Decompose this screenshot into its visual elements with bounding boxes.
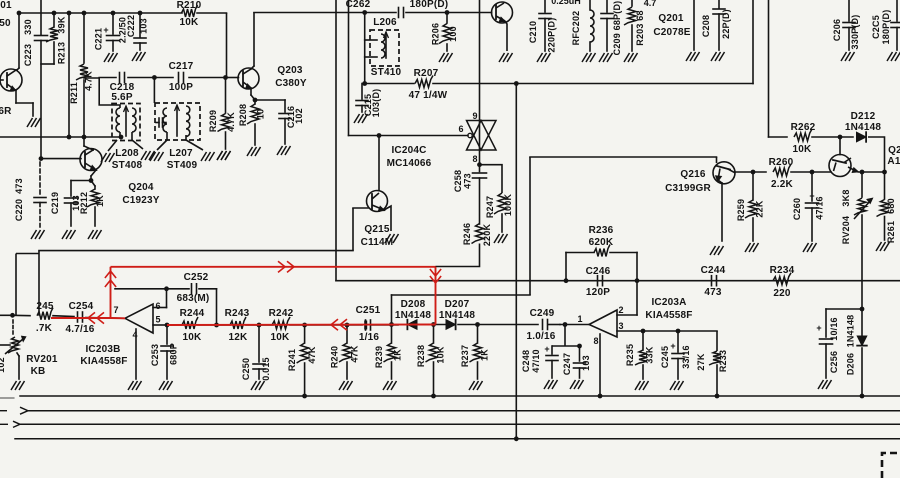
ground of Q215 emitter bbox=[385, 234, 399, 243]
svg-text:KB: KB bbox=[31, 366, 46, 377]
capacitor C247 103 bbox=[574, 346, 586, 378]
svg-text:R211: R211 bbox=[69, 82, 79, 104]
svg-text:8: 8 bbox=[593, 336, 598, 346]
ground of R247 bbox=[494, 234, 508, 243]
svg-text:680: 680 bbox=[886, 198, 896, 214]
ground of C260 bbox=[803, 243, 817, 252]
capacitor C218 5.6P bbox=[119, 73, 121, 83]
node dot x259 y325 bbox=[257, 323, 262, 328]
inductor L206 dashed box ST410 bbox=[365, 30, 399, 66]
red arrow right on C bbox=[287, 261, 294, 272]
svg-text:1K: 1K bbox=[480, 349, 490, 361]
ground of C222 bbox=[132, 52, 146, 61]
node dot x565 y324.5 bbox=[563, 322, 568, 327]
ground of C206 bbox=[841, 52, 855, 61]
svg-text:C260: C260 bbox=[792, 198, 802, 220]
node dot top rail at x19 bbox=[17, 11, 22, 16]
svg-text:C3199GR: C3199GR bbox=[665, 183, 711, 194]
svg-text:47K: 47K bbox=[307, 346, 317, 363]
wire y83.5 line with R207 bbox=[365, 83, 414, 85]
wire D212 line y137 bbox=[769, 136, 788, 138]
capacitor C210 220P(D) bbox=[539, 0, 551, 51]
transistor Q217 A12 (edge) bbox=[829, 137, 862, 177]
svg-text:KIA4558F: KIA4558F bbox=[80, 356, 127, 367]
node dot x433.5 y324.5 bbox=[431, 322, 436, 327]
svg-text:1/16: 1/16 bbox=[359, 332, 380, 343]
wire emitter line right bbox=[862, 171, 885, 173]
svg-text:01: 01 bbox=[0, 0, 12, 11]
wire C254 to opamp out bbox=[86, 317, 125, 320]
svg-text:0.015: 0.015 bbox=[261, 357, 271, 381]
svg-text:C380Y: C380Y bbox=[275, 78, 307, 89]
bus line 3 y424.3 bbox=[20, 423, 900, 425]
node dot top rail at x69 bbox=[67, 11, 72, 16]
red trace output segment A bbox=[51, 317, 111, 319]
svg-text:10K: 10K bbox=[793, 144, 813, 155]
wire audio line segment bbox=[305, 324, 347, 326]
ground right of L208 bbox=[141, 151, 155, 160]
svg-text:473: 473 bbox=[704, 287, 722, 298]
svg-text:D206: D206 bbox=[846, 353, 856, 375]
wire Q216 collector to R260 bbox=[735, 171, 766, 173]
svg-text:R234: R234 bbox=[770, 265, 795, 276]
svg-text:50: 50 bbox=[0, 18, 11, 29]
ground of R237 bbox=[469, 381, 483, 390]
wire from R210 down to Q203 base node bbox=[226, 13, 228, 78]
svg-text:C219: C219 bbox=[50, 192, 60, 214]
capacitor C209 68P(D) bbox=[601, 0, 613, 51]
resistor R213 39K vertical bbox=[41, 13, 58, 64]
wire C249 to opamp bbox=[548, 324, 560, 326]
node dot bus x717 bbox=[715, 394, 720, 399]
svg-text:C220: C220 bbox=[14, 199, 24, 221]
bus line 3 arrow bbox=[0, 423, 8, 425]
resistor R208 10 vertical bbox=[247, 100, 259, 145]
ground of C250 bbox=[251, 381, 265, 390]
wire D208 to D207 bbox=[417, 324, 446, 326]
node dot x121 y137 bbox=[119, 135, 124, 140]
resistor R261 680 bbox=[877, 172, 889, 240]
bus line 2 y410.7 bbox=[28, 410, 900, 412]
opamp IC203A KIA4558F bbox=[560, 281, 717, 337]
ground of R209 bbox=[217, 151, 231, 160]
svg-text:C247: C247 bbox=[562, 353, 572, 375]
svg-text:102: 102 bbox=[0, 357, 6, 373]
node dot Q204 base x41 bbox=[39, 156, 44, 161]
resistor R245 4.7K bbox=[37, 308, 53, 320]
resistor R203 68 vertical bbox=[624, 0, 636, 51]
svg-text:473: 473 bbox=[463, 173, 473, 189]
wire C258 to R246 bbox=[479, 178, 481, 224]
node dot x579.5 y346 bbox=[577, 344, 582, 349]
svg-text:C222: C222 bbox=[126, 15, 136, 37]
svg-text:ST409: ST409 bbox=[167, 160, 198, 171]
svg-text:10K: 10K bbox=[183, 332, 203, 343]
svg-text:1K: 1K bbox=[95, 195, 105, 207]
ground left of L207 bbox=[150, 152, 164, 161]
svg-text:473: 473 bbox=[14, 178, 24, 194]
svg-text:RFC202: RFC202 bbox=[571, 11, 581, 46]
resistor R233 27K bbox=[709, 331, 721, 396]
svg-text:22K: 22K bbox=[755, 200, 765, 217]
resistor R260 2.2K bbox=[773, 164, 791, 176]
svg-text:IC203A: IC203A bbox=[651, 297, 686, 308]
node dot x347 y325 bbox=[345, 323, 350, 328]
ground of C208 bbox=[711, 52, 725, 61]
dashed box corner bottom right bbox=[882, 453, 900, 478]
svg-text:5: 5 bbox=[155, 315, 160, 325]
svg-text:R236: R236 bbox=[589, 225, 614, 236]
capacitor C217 100P bbox=[178, 73, 180, 83]
wire riser x530 from Q216 base line bbox=[529, 157, 531, 295]
svg-text:33K: 33K bbox=[645, 346, 655, 363]
capacitor C253 680P bbox=[161, 325, 173, 379]
wire C252 right riser to audio line bbox=[216, 289, 218, 325]
svg-text:R209: R209 bbox=[208, 110, 218, 132]
resistor R211 4.7K vertical bbox=[76, 13, 88, 137]
red trace vertical D bbox=[435, 267, 437, 325]
long vertical x479.5 through IC204C bbox=[479, 0, 481, 172]
svg-text:1: 1 bbox=[577, 314, 582, 324]
capacitor C251 1/16 electrolytic bbox=[364, 320, 370, 330]
svg-text:C208: C208 bbox=[701, 15, 711, 37]
bus line 4 y438.8 bbox=[15, 438, 900, 440]
wire C251 to D208 bbox=[371, 324, 398, 326]
branch pin8 to R247 bbox=[480, 165, 503, 193]
long vertical x516.3 to bus4 bbox=[515, 84, 517, 439]
svg-text:22P(D): 22P(D) bbox=[721, 9, 731, 39]
svg-text:10: 10 bbox=[256, 109, 266, 119]
svg-text:C254: C254 bbox=[69, 301, 94, 312]
svg-text:R261: R261 bbox=[886, 221, 896, 243]
svg-text:4.7/16: 4.7/16 bbox=[65, 324, 94, 335]
node dot at 225 on y77.5 bbox=[223, 75, 228, 80]
svg-text:R235: R235 bbox=[625, 344, 635, 366]
svg-text:102: 102 bbox=[294, 108, 304, 124]
svg-text:C246: C246 bbox=[586, 266, 611, 277]
node dot at 154 on y77.5 bbox=[152, 75, 157, 80]
capacitor C256 10/16 bbox=[820, 309, 833, 378]
svg-text:680P: 680P bbox=[169, 343, 179, 365]
ground of C215 bbox=[354, 114, 368, 123]
svg-text:RV204: RV204 bbox=[841, 216, 851, 244]
svg-text:D212: D212 bbox=[851, 111, 876, 122]
red trace vertical B bbox=[110, 267, 112, 318]
red trace horizontal C bbox=[111, 266, 436, 268]
svg-text:103: 103 bbox=[581, 355, 591, 371]
svg-text:C244: C244 bbox=[701, 265, 726, 276]
capacitor C222 103 bbox=[134, 13, 146, 50]
wire L206 drop x364.7 bbox=[364, 13, 366, 84]
wire R245 to C254 bbox=[53, 315, 74, 318]
long vertical bus x348.5 bbox=[348, 0, 350, 136]
svg-text:3K8: 3K8 bbox=[841, 189, 851, 206]
wire audio line y324.5 main bbox=[0, 314, 13, 316]
svg-text:5.6P: 5.6P bbox=[111, 92, 133, 103]
wire drop x391.5 to audio line bbox=[391, 295, 393, 325]
wire y295 segment bbox=[392, 294, 531, 296]
node dot x516 y83.5 bbox=[514, 81, 519, 86]
ground of R206 bbox=[439, 53, 453, 62]
wire D207 to C249 bbox=[458, 324, 538, 326]
resistor R242 10K bbox=[259, 317, 305, 329]
svg-text:R238: R238 bbox=[416, 345, 426, 367]
ground left of L208 bbox=[101, 153, 115, 162]
ground of C220 bbox=[31, 230, 45, 239]
red arrow left on E bbox=[331, 319, 338, 330]
svg-text:Q204: Q204 bbox=[128, 182, 154, 193]
svg-text:4.7K: 4.7K bbox=[84, 71, 94, 91]
wire x694 short with ground bbox=[693, 0, 695, 50]
node dot bus x304 bbox=[302, 394, 307, 399]
node dot top rail at x54 bbox=[52, 11, 57, 16]
node dot emitter Q203 bbox=[253, 98, 258, 103]
svg-text:10K: 10K bbox=[436, 346, 446, 363]
svg-text:ST410: ST410 bbox=[371, 67, 402, 78]
ground of R209 area right bbox=[217, 151, 231, 160]
capacitor C220 dashed branch bbox=[34, 162, 46, 227]
svg-text:D207: D207 bbox=[445, 299, 470, 310]
long vertical x768.5 bbox=[768, 0, 770, 137]
svg-text:C250: C250 bbox=[241, 358, 251, 380]
wire R262 to D212 bbox=[812, 136, 853, 138]
svg-text:180P(D): 180P(D) bbox=[881, 10, 891, 45]
bus line 2 arrow bbox=[0, 410, 7, 412]
svg-text:R207: R207 bbox=[414, 68, 439, 79]
capacitor C246 120P bbox=[597, 276, 599, 286]
capacitor C260 47/16 electrolytic bbox=[806, 172, 819, 241]
resistor R237 1K bbox=[470, 325, 482, 379]
svg-text:R259: R259 bbox=[736, 199, 746, 221]
svg-text:2.2K: 2.2K bbox=[771, 179, 794, 190]
node dot pin3 x678 bbox=[676, 329, 681, 334]
svg-text:A1: A1 bbox=[887, 156, 900, 167]
resistor R206 100 vertical bbox=[439, 13, 451, 52]
node dot bus x434 bbox=[431, 394, 436, 399]
svg-text:C251: C251 bbox=[356, 305, 381, 316]
capacitor C254 4.7/16 bbox=[77, 312, 79, 322]
resistor R246 220K bbox=[472, 224, 484, 244]
ground of RFC202 bbox=[582, 53, 596, 62]
ground of C210 bbox=[537, 53, 551, 62]
node dot bus x600 bbox=[598, 394, 603, 399]
svg-text:+: + bbox=[816, 323, 821, 333]
svg-text:R247: R247 bbox=[485, 196, 495, 218]
svg-text:R208: R208 bbox=[238, 104, 248, 126]
node dot x84 y137 bbox=[82, 135, 87, 140]
svg-text:100P: 100P bbox=[169, 82, 193, 93]
svg-text:1N4148: 1N4148 bbox=[395, 310, 431, 321]
wire top-left horizontal rail y=13 bbox=[19, 12, 182, 14]
node dot x812 y172 bbox=[810, 170, 815, 175]
ground x694 bbox=[686, 52, 700, 61]
svg-text:R241: R241 bbox=[287, 349, 297, 371]
IC203A power pin to bus bbox=[599, 334, 601, 396]
svg-text:1N4148: 1N4148 bbox=[845, 122, 881, 133]
inductor RFC202 coil bbox=[590, 0, 594, 51]
svg-text:C1923Y: C1923Y bbox=[122, 195, 159, 206]
wire audio line to C251 bbox=[347, 324, 362, 326]
ground of R261 bbox=[876, 242, 890, 251]
svg-text:C249: C249 bbox=[530, 308, 555, 319]
svg-text:6R: 6R bbox=[0, 106, 12, 117]
capacitor C249 1.0/16 bbox=[542, 320, 544, 330]
wire pin6 riser bbox=[166, 289, 168, 308]
ground of C253 bbox=[159, 381, 173, 390]
transistor Q204 C1923Y bbox=[41, 137, 102, 181]
capacitor C221 2.2/50 electrolytic bbox=[107, 13, 120, 51]
svg-text:39K: 39K bbox=[57, 16, 67, 33]
transistor Q201 C2078E bbox=[492, 2, 513, 51]
node dot x364.7 y83.5 bbox=[362, 81, 367, 86]
ground of C216 bbox=[277, 146, 291, 155]
ground of R212 bbox=[88, 230, 102, 239]
red arrow up on B bbox=[105, 271, 116, 278]
svg-text:RV201: RV201 bbox=[26, 354, 58, 365]
svg-text:6: 6 bbox=[458, 124, 463, 134]
ground of R235 bbox=[635, 381, 649, 390]
red trace audio segment E bbox=[167, 324, 436, 327]
svg-text:R206: R206 bbox=[431, 23, 441, 45]
resistor R234 220 bbox=[773, 273, 791, 285]
ground of R259 bbox=[745, 243, 759, 252]
capacitor C216 102 bbox=[279, 100, 291, 144]
svg-text:8: 8 bbox=[472, 154, 477, 164]
svg-text:R243: R243 bbox=[225, 308, 250, 319]
svg-text:120P: 120P bbox=[586, 287, 610, 298]
ground of C221 bbox=[104, 53, 118, 62]
ground of Q201 emitter bbox=[499, 53, 513, 62]
diode D207 1N4148 bbox=[446, 320, 456, 330]
node dot x69 y137 bbox=[67, 135, 72, 140]
resistor R209 4.7K vertical below Q203 base node bbox=[218, 78, 230, 150]
svg-text:100: 100 bbox=[448, 26, 458, 42]
diode D206 1N4148 vertical bbox=[857, 309, 867, 396]
svg-text:R233: R233 bbox=[718, 350, 728, 372]
svg-text:R244: R244 bbox=[180, 308, 205, 319]
svg-text:C223: C223 bbox=[23, 44, 33, 66]
ground of C245 bbox=[670, 381, 684, 390]
node dot x753 y172 bbox=[751, 170, 756, 175]
ground of R240 bbox=[339, 381, 353, 390]
svg-text:Q216: Q216 bbox=[680, 169, 706, 180]
node dot x391.5 y324.5 bbox=[389, 322, 394, 327]
svg-text:12K: 12K bbox=[229, 332, 249, 343]
capacitor C258 473 bbox=[473, 172, 487, 174]
resistor R244 10K bbox=[167, 317, 217, 329]
node dot Q204 emitter bbox=[89, 178, 94, 183]
resistor R239 1K bbox=[384, 325, 396, 379]
svg-text:330P(D): 330P(D) bbox=[850, 15, 860, 50]
ground of C256 bbox=[818, 380, 832, 389]
node dot x884.5 y172 bbox=[882, 170, 887, 175]
svg-text:C209 68P(D): C209 68P(D) bbox=[612, 1, 622, 56]
ground of R203 bbox=[624, 53, 638, 62]
ground of RV201 bbox=[11, 381, 25, 390]
svg-text:C2C5: C2C5 bbox=[871, 15, 881, 39]
svg-text:IC204C: IC204C bbox=[391, 145, 426, 156]
resistor R243 12K bbox=[217, 317, 260, 329]
svg-text:ST408: ST408 bbox=[112, 160, 143, 171]
node dot x12.5 bbox=[10, 313, 15, 318]
svg-text:47/16: 47/16 bbox=[815, 196, 825, 220]
node dot top rail at x140 bbox=[138, 11, 143, 16]
svg-text:C206: C206 bbox=[832, 19, 842, 41]
svg-text:C248: C248 bbox=[521, 350, 531, 372]
Q203 emitter node wire bbox=[255, 99, 285, 101]
svg-text:27K: 27K bbox=[696, 353, 706, 370]
wire C262 to Q201 base bbox=[406, 12, 492, 14]
ground of Q216 emitter bbox=[710, 246, 724, 255]
svg-text:1N4148: 1N4148 bbox=[439, 310, 475, 321]
svg-text:9: 9 bbox=[472, 111, 477, 121]
node dot x862 y172 bbox=[860, 170, 865, 175]
wire y137 left line bbox=[0, 136, 119, 138]
capacitor C206 330P(D) bbox=[843, 0, 855, 50]
svg-text:Q2: Q2 bbox=[888, 145, 900, 156]
ground right of L207 bbox=[201, 152, 215, 161]
svg-text:L206: L206 bbox=[373, 17, 397, 28]
node dot x365 y12.5 bbox=[362, 10, 367, 15]
node dot x166.5 y288.8 bbox=[164, 286, 169, 291]
svg-text:L207: L207 bbox=[169, 148, 193, 159]
svg-text:683(M): 683(M) bbox=[177, 293, 210, 304]
svg-text:.7K: .7K bbox=[36, 323, 53, 334]
wire vertical x69 from rail to y137 bbox=[68, 13, 70, 137]
wire collector rail y12.5 to C262 bbox=[254, 12, 396, 14]
svg-text:7: 7 bbox=[113, 305, 118, 315]
svg-text:1K: 1K bbox=[393, 349, 403, 361]
svg-text:220K: 220K bbox=[482, 224, 492, 247]
wire D212 corner down to emitter line bbox=[868, 137, 885, 172]
diode D208 1N4148 bbox=[407, 320, 417, 330]
svg-text:R203 68: R203 68 bbox=[635, 10, 645, 45]
wire R247 to ground bbox=[501, 214, 503, 232]
long vertical bus x336 bbox=[335, 0, 337, 281]
svg-text:103: 103 bbox=[139, 18, 149, 34]
svg-text:100K: 100K bbox=[503, 194, 513, 217]
IF transformer L207 ST409 dashed box bbox=[154, 78, 203, 151]
ground of C209 bbox=[599, 53, 613, 62]
transistor Q-left (edge) bbox=[0, 13, 33, 116]
svg-text:Q215: Q215 bbox=[364, 224, 390, 235]
svg-text:1N4148: 1N4148 bbox=[846, 315, 856, 348]
wire y83.5 right portion bbox=[433, 83, 753, 85]
capacitor C223 on x41 vertical bbox=[35, 0, 48, 156]
svg-text:180P(D): 180P(D) bbox=[410, 0, 449, 10]
resistor R212 1K vertical bbox=[87, 181, 99, 227]
transistor Q215 C114M bbox=[353, 136, 391, 251]
svg-text:R239: R239 bbox=[374, 346, 384, 368]
svg-text:3: 3 bbox=[618, 321, 623, 331]
svg-text:R210: R210 bbox=[177, 0, 202, 11]
svg-text:220P(D): 220P(D) bbox=[547, 18, 557, 53]
ground of C247 bbox=[570, 380, 584, 389]
svg-text:C221: C221 bbox=[94, 28, 104, 50]
svg-text:10K: 10K bbox=[271, 332, 291, 343]
opamp IC203B KIA4558F bbox=[125, 304, 167, 333]
wire net y280.7 long horizontal bbox=[336, 280, 900, 282]
node dot top rail at x84 bbox=[82, 11, 87, 16]
svg-text:+: + bbox=[544, 344, 549, 354]
IC203B ground pin bbox=[135, 329, 137, 379]
transistor Q216 C3199GR bbox=[713, 157, 735, 241]
capacitor C215 103(D) bbox=[356, 84, 368, 113]
node dot x304.6 y325 bbox=[302, 323, 307, 328]
svg-text:C210: C210 bbox=[528, 21, 538, 43]
emitter wire to C219 bbox=[71, 180, 91, 182]
ground of IC203B pin4 bbox=[128, 381, 142, 390]
